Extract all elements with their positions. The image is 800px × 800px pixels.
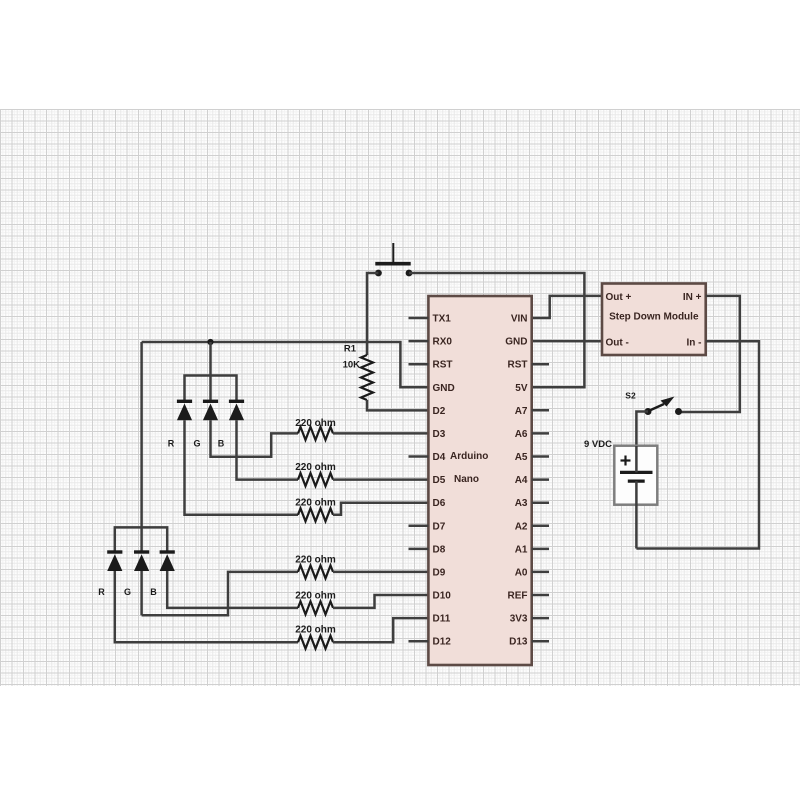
svg-text:220 ohm: 220 ohm [295,418,336,429]
svg-text:GND: GND [505,337,527,348]
svg-text:D7: D7 [433,521,446,532]
svg-text:Arduino: Arduino [450,451,488,462]
svg-text:220 ohm: 220 ohm [295,498,336,509]
svg-text:A6: A6 [515,429,528,440]
battery plus symbol [621,456,631,466]
wire: battery internal leads [635,446,638,472]
svg-text:B: B [218,439,225,449]
svg-text:S2: S2 [625,391,636,401]
LED G (bottom group) [134,550,149,553]
wire: GND net long horizontal to left GND pin [142,342,429,387]
resistor 220 ohm (row 2, D5) [298,473,333,486]
svg-text:RX0: RX0 [433,337,453,348]
wire: VIN pin to step-down Out+ [532,296,602,318]
svg-text:A4: A4 [515,475,528,486]
svg-text:TX1: TX1 [433,314,452,325]
svg-text:G: G [193,439,200,449]
op-amp U1: Arduino Nano body [428,296,531,665]
svg-text:In -: In - [687,338,702,349]
svg-text:B: B [150,587,157,597]
resistor 220 ohm (row 3, D6) [298,508,333,521]
resistor 220 ohm (row 5, D10) [298,601,333,614]
svg-text:A5: A5 [515,452,528,463]
svg-text:220 ohm: 220 ohm [295,462,336,473]
svg-text:5V: 5V [515,383,528,394]
pin stubs: unconnected right pins RST A7-A0 REF 3V3 D13 [532,363,549,366]
svg-text:A3: A3 [515,498,528,509]
resistor 220 ohm (row 6, D11) [298,636,333,649]
LED R (top group) [177,400,192,403]
svg-text:Step Down Module: Step Down Module [609,312,699,323]
wire: row 1 resistor to pin D3 [333,432,428,435]
wire: pushbutton left contact to R1 top [367,273,378,355]
wire: bottom LED B anode to resistor row 5 [167,571,298,608]
svg-text:Nano: Nano [454,474,479,485]
svg-text:D11: D11 [433,614,451,625]
svg-text:REF: REF [508,591,528,602]
svg-text:A0: A0 [515,567,528,578]
svg-text:220 ohm: 220 ohm [295,555,336,566]
step down module body [602,284,706,356]
svg-text:D4: D4 [433,452,446,463]
svg-text:D2: D2 [433,406,446,417]
wire: row 5 resistor to pin D10 [333,595,428,608]
junction dot on GND net [207,339,213,345]
svg-text:D5: D5 [433,475,446,486]
svg-text:9 VDC: 9 VDC [584,439,612,450]
svg-text:G: G [124,587,131,597]
wire: row 3 resistor to pin D6 [333,503,428,515]
svg-text:D3: D3 [433,429,446,440]
wire: GND pin to step-down Out- [532,340,602,343]
svg-text:GND: GND [433,383,455,394]
wire: R1 bottom to pin D2 [367,400,428,410]
wire: bottom LED G anode to resistor row 4 [142,572,298,615]
wire: row 6 resistor to pin D11 [333,618,428,642]
svg-text:220 ohm: 220 ohm [295,591,336,602]
svg-text:D8: D8 [433,544,446,555]
svg-text:RST: RST [433,360,453,371]
svg-text:A1: A1 [515,544,528,555]
svg-text:IN +: IN + [683,292,702,303]
svg-text:D10: D10 [433,591,452,602]
svg-text:Out -: Out - [606,338,629,349]
wire: left tall vertical GND net to bottom LED bus [140,342,143,527]
svg-text:A7: A7 [515,406,528,417]
LED B (top group) [229,400,244,403]
wire: pushbutton right contact to 5V pin [409,273,584,387]
wire: step-down IN+ to switch right contact [679,296,740,412]
svg-text:3V3: 3V3 [510,614,528,625]
LED B (bottom group) [160,550,175,553]
wire: bottom LED bus bar [115,527,167,552]
wire: row 4 resistor to pin D9 [333,571,428,574]
wire: switch left contact to battery positive [636,412,648,447]
svg-text:R: R [98,587,105,597]
svg-text:A2: A2 [515,521,528,532]
battery negative plate [628,480,645,483]
wire: top LED bus bar [185,376,237,402]
svg-text:D12: D12 [433,637,452,648]
svg-text:220 ohm: 220 ohm [295,625,336,636]
wire: bottom LED R anode to resistor row 6 [115,571,298,642]
battery B1 9VDC body [614,446,657,505]
svg-text:D13: D13 [509,637,528,648]
svg-text:R1: R1 [344,344,357,355]
wire: top LED R anode to resistor row 3 [185,420,299,515]
svg-text:Out +: Out + [606,292,632,303]
svg-text:10K: 10K [343,360,361,371]
pushbutton S1 [375,243,412,276]
svg-text:R: R [168,439,175,449]
resistor 220 ohm (row 4, D9) [298,565,333,578]
wire: row 2 resistor to pin D5 [333,478,428,481]
resistor R1 [361,355,373,400]
pin stubs: unconnected left pins TX1 RX0 RST D4 D7 D8 D12 [409,317,429,320]
wire: top LED B anode to resistor row 2 [237,420,299,479]
LED R (bottom group) [107,550,122,553]
switch S2 [645,397,683,416]
svg-text:D6: D6 [433,498,446,509]
wire: top LED G anode to resistor row 1 [211,420,299,456]
LED G (top group) [203,400,218,403]
wire: bottom LED G lead [140,571,143,615]
wire: step-down In- to battery negative [636,341,759,548]
svg-text:RST: RST [508,360,528,371]
svg-text:D9: D9 [433,567,446,578]
battery positive plate [620,471,653,474]
svg-text:VIN: VIN [511,314,528,325]
wire: junction down to top LED bus [209,342,212,376]
resistor 220 ohm (row 1, D3) [298,427,333,440]
